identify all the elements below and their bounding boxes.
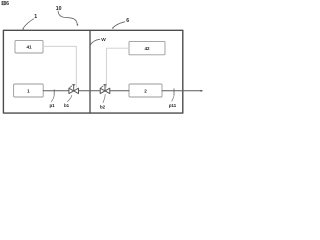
box 2 xyxy=(129,84,162,97)
pipe valve b1 to partition xyxy=(79,90,101,92)
box 1 xyxy=(14,84,44,97)
figure caption 图6 xyxy=(2,1,10,7)
signal line 42 to valve b2 xyxy=(106,48,129,87)
outer enclosure 10 xyxy=(3,30,182,113)
leader hook b1 xyxy=(67,95,71,101)
svg-text:p11: p11 xyxy=(169,103,177,108)
measuring tick p1 xyxy=(53,90,55,95)
svg-text:6: 6 xyxy=(6,1,9,7)
svg-text:1: 1 xyxy=(34,14,37,20)
pipe box 2 to outlet arrow xyxy=(162,90,202,92)
leader hook p1 xyxy=(51,95,54,102)
svg-text:10: 10 xyxy=(56,6,62,12)
svg-text:42: 42 xyxy=(144,46,150,51)
partition wall W xyxy=(89,30,91,113)
svg-text:p1: p1 xyxy=(49,103,55,108)
label 6 (leader) xyxy=(113,22,125,28)
label 10 (leader) xyxy=(58,11,77,24)
svg-text:W: W xyxy=(101,37,106,43)
valve b1 xyxy=(69,84,79,94)
pipe box1 to valve b1 xyxy=(43,90,69,92)
label 1 (leader) xyxy=(23,19,34,29)
leader hook p11 xyxy=(172,95,174,101)
svg-text:b1: b1 xyxy=(64,103,70,108)
svg-text:1: 1 xyxy=(27,89,30,94)
svg-text:41: 41 xyxy=(26,45,32,50)
svg-text:6: 6 xyxy=(126,18,129,24)
svg-text:2: 2 xyxy=(144,89,147,94)
valve b2 xyxy=(100,84,110,94)
pipe valve b2 to box 2 xyxy=(110,90,129,92)
leader hook b2 xyxy=(103,94,105,102)
box 42 xyxy=(129,41,165,54)
box 41 xyxy=(15,40,43,53)
label W (leader) xyxy=(91,39,100,44)
svg-text:b2: b2 xyxy=(100,104,106,109)
signal line 41 to valve b1 xyxy=(43,46,76,87)
measuring tick p11 xyxy=(173,89,175,95)
